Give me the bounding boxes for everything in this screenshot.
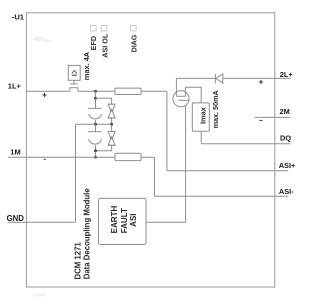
junction dot lower node	[94, 149, 97, 152]
wire 1M with label underline	[8, 156, 115, 158]
wire branch to TVS D1	[96, 98, 112, 104]
svg-text:max. 50mA: max. 50mA	[211, 90, 220, 128]
current limiter circle Q1	[173, 91, 189, 107]
breaker actuator T-bar	[70, 83, 78, 85]
wire mid node to TVS D2	[111, 124, 113, 131]
svg-text:ASI: ASI	[129, 213, 138, 226]
svg-text:ASI-: ASI-	[279, 187, 294, 196]
wire mid node to C2	[95, 124, 97, 131]
faint watermark smudge bottom left	[32, 293, 46, 296]
svg-text:1M: 1M	[10, 148, 20, 157]
polarity marker - on 2M	[259, 119, 262, 121]
wire C2 to lower node	[95, 145, 97, 157]
junction dot on 1M wire	[94, 156, 97, 159]
svg-text:Imax: Imax	[198, 106, 207, 124]
svg-text:DIAG: DIAG	[131, 34, 138, 52]
resistor R1	[115, 88, 141, 94]
wire GND riser to capacitor mid node	[75, 124, 77, 222]
wire down to ASI+	[166, 91, 168, 171]
wire down to ASI-	[154, 157, 156, 196]
wire breaker to resistor R1	[78, 90, 115, 92]
junction dot mid left	[94, 123, 97, 126]
svg-text:-U1: -U1	[12, 13, 25, 22]
svg-text:max. 4A: max. 4A	[82, 51, 91, 80]
wire diode to 2L+	[223, 77, 291, 79]
diode D3 triangle	[216, 74, 223, 83]
svg-text:2M: 2M	[280, 107, 290, 116]
svg-text:EFD: EFD	[89, 36, 98, 50]
capacitor C1 top plate	[88, 107, 102, 109]
wire 2M stub	[255, 116, 291, 118]
capacitor C1 curved plate	[89, 114, 102, 119]
mid node row wire	[76, 123, 112, 125]
wire GND with label underline	[8, 221, 76, 223]
module boundary box U1	[26, 13, 274, 287]
TVS diode D2 (bidirectional)	[108, 132, 115, 146]
wire into current limiter	[175, 78, 177, 96]
svg-text:DCM 1271: DCM 1271	[73, 242, 82, 280]
svg-text:GND: GND	[7, 214, 25, 223]
junction dot on 1L+ wire	[94, 90, 97, 93]
wire R2 to corner	[141, 156, 155, 158]
wire Imax box to DQ	[200, 131, 202, 144]
junction dot mid right	[110, 123, 113, 126]
Imax box	[192, 103, 209, 131]
breaker contact bump F1	[70, 88, 78, 92]
wire R1 to corner	[141, 90, 167, 92]
limiter internal U bar	[176, 87, 185, 96]
branch down from 1L+ wire	[95, 91, 97, 108]
capacitor C2 top plate	[88, 131, 102, 133]
wire DQ	[201, 143, 290, 145]
svg-text:DQ: DQ	[280, 134, 291, 143]
polarity marker + on 2L+	[259, 80, 263, 84]
polarity marker + on 1L+	[43, 93, 47, 97]
diode D3 cathode bar	[214, 74, 216, 83]
EARTH FAULT ASI box	[99, 198, 147, 244]
breaker link to fuse box	[73, 80, 75, 84]
wire C1 to mid node	[95, 120, 97, 124]
I> symbol inside fuse box	[72, 70, 77, 75]
LED DIAG square	[131, 26, 137, 32]
wire limiter to Imax box	[185, 87, 201, 103]
wire limiter bottom to earth-fault line	[185, 105, 187, 222]
svg-text:2L+: 2L+	[280, 70, 294, 79]
wire earth-fault box to limiter line	[146, 221, 186, 223]
limiter lower bar	[178, 99, 189, 101]
wire top feed corner to diode	[176, 77, 215, 79]
faint watermark smudge upper left	[34, 37, 52, 43]
LED ASI OL square	[101, 26, 107, 32]
wire ASI-	[155, 195, 289, 197]
fuse box F1 (I> overcurrent release)	[68, 65, 80, 80]
svg-text:ASI+: ASI+	[279, 161, 296, 170]
capacitor C2 curved plate	[89, 139, 102, 144]
TVS diode D1 (bidirectional)	[108, 104, 115, 118]
resistor R2	[115, 153, 141, 160]
svg-text:ASI OL: ASI OL	[101, 33, 110, 58]
svg-text:FAULT: FAULT	[120, 208, 129, 233]
junction dot branch	[94, 97, 97, 100]
wire ASI+	[167, 170, 288, 172]
polarity marker - on 1M	[44, 158, 46, 160]
svg-text:EARTH: EARTH	[110, 206, 119, 234]
LED EFD square	[91, 26, 97, 32]
wire D2 down and left to lower node	[96, 145, 112, 150]
svg-text:1L+: 1L+	[8, 82, 22, 91]
wire D1 to mid node	[111, 118, 113, 124]
wire 1L+ from border to breaker	[26, 90, 70, 92]
svg-text:Data Decoupling Module: Data Decoupling Module	[83, 188, 92, 280]
